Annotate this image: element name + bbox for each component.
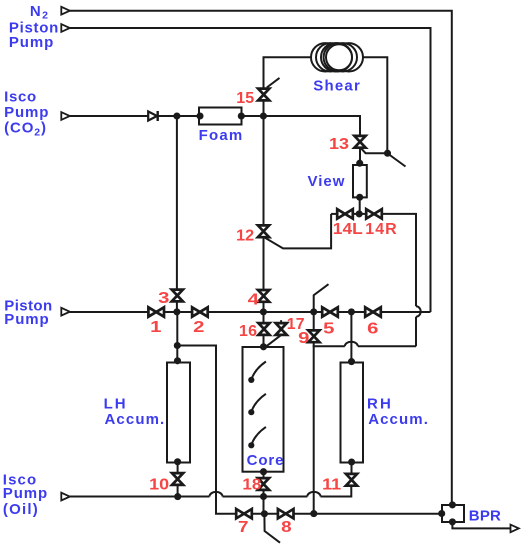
svg-text:Pump: Pump: [4, 311, 49, 328]
svg-text:Core: Core: [247, 452, 285, 469]
svg-text:2: 2: [193, 319, 204, 336]
svg-text:Pump: Pump: [9, 34, 54, 51]
svg-text:4: 4: [248, 292, 259, 309]
svg-text:13: 13: [329, 136, 349, 153]
svg-text:View: View: [308, 173, 346, 190]
svg-text:14R: 14R: [365, 221, 397, 238]
svg-text:Pump: Pump: [3, 485, 48, 502]
svg-text:12: 12: [236, 227, 254, 244]
svg-text:Foam: Foam: [199, 127, 244, 144]
svg-text:3: 3: [158, 290, 169, 307]
svg-text:6: 6: [367, 321, 378, 338]
svg-text:14L: 14L: [333, 221, 363, 238]
svg-text:Shear: Shear: [313, 78, 361, 95]
svg-text:1: 1: [150, 319, 161, 336]
svg-text:11: 11: [322, 477, 341, 494]
svg-text:18: 18: [242, 477, 261, 494]
svg-text:(Oil): (Oil): [3, 501, 39, 518]
svg-text:10: 10: [149, 477, 169, 494]
svg-text:(CO2): (CO2): [4, 120, 47, 139]
svg-text:15: 15: [236, 90, 254, 107]
svg-text:BPR: BPR: [469, 508, 501, 525]
svg-text:9: 9: [298, 330, 309, 347]
svg-text:RH: RH: [367, 396, 393, 413]
svg-text:7: 7: [238, 519, 249, 536]
svg-text:Pump: Pump: [4, 104, 49, 121]
svg-text:Accum.: Accum.: [368, 411, 429, 428]
svg-text:16: 16: [239, 323, 257, 340]
svg-text:8: 8: [281, 519, 292, 536]
svg-text:Accum.: Accum.: [105, 411, 166, 428]
svg-text:5: 5: [323, 321, 334, 338]
svg-text:LH: LH: [104, 396, 128, 413]
